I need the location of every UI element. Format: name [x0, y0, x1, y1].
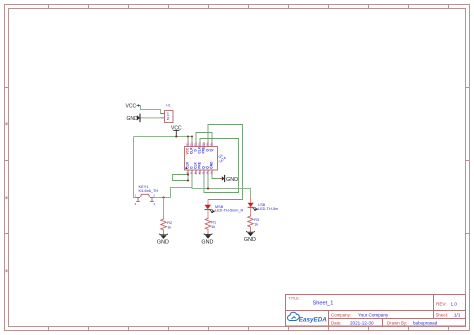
svg-text:1.0: 1.0 [451, 302, 458, 307]
svg-text:Sheet:: Sheet: [436, 313, 449, 318]
ground symbol below R2 [159, 233, 168, 236]
svg-text:Drawn By:: Drawn By: [387, 321, 407, 326]
IC U1 bottom row pin names (rotated) [186, 161, 214, 169]
svg-text:2021-12-30: 2021-12-30 [350, 321, 374, 326]
net flag GND (right of IC) triangle [222, 176, 225, 181]
wire IC bottom pin 207.5 to key line [207, 175, 209, 189]
IC U1 top row pin names (rotated) [186, 146, 214, 154]
svg-text:LED-TH-5m: LED-TH-5m [258, 207, 278, 211]
svg-text:EasyEDA: EasyEDA [299, 316, 327, 323]
svg-text:GND: GND [244, 237, 256, 243]
svg-text:REV:: REV: [436, 302, 447, 307]
header H1 body [165, 111, 174, 123]
svg-text:1k: 1k [211, 225, 215, 229]
frame ruler ticks top [49, 5, 449, 9]
wire loop pin 207.5 top to MSB led via right [208, 125, 243, 200]
net flag arrow VCC [137, 105, 140, 107]
svg-text:Company:: Company: [331, 312, 351, 317]
svg-text:11: 11 [198, 143, 201, 147]
svg-text:Sheet_1: Sheet_1 [313, 300, 334, 306]
wire IC bottom pin 191.5 to key line [191, 175, 193, 188]
wire key line to LSB led [154, 188, 251, 198]
svg-text:babuprasad: babuprasad [413, 321, 438, 326]
title block border [286, 295, 466, 327]
IC U1 top pin numbers [186, 143, 213, 147]
wire VCC rail left drop to key [134, 137, 137, 198]
svg-text:Date:: Date: [331, 321, 342, 326]
wire IC bottom pin 211.5 to GND flag [212, 175, 220, 179]
wire GND to H1 pin2 [141, 117, 162, 119]
junction node pin 187.5 at 174.5 [187, 173, 189, 175]
EasyEDA logo cloud [288, 312, 300, 320]
wire key junction down to R2 [163, 198, 165, 218]
junction node on VCC rail at x=176 [175, 135, 177, 137]
svg-text:R3: R3 [254, 218, 259, 222]
svg-text:GND: GND [210, 161, 214, 169]
junction node on VCC rail at pin 187.5 [187, 135, 189, 137]
svg-text:R1: R1 [211, 221, 216, 225]
frame ruler ticks left [5, 88, 9, 273]
svg-text:K4-6x6_TH: K4-6x6_TH [139, 188, 159, 193]
ground symbol below R3 [246, 230, 255, 233]
svg-text:GND: GND [127, 116, 139, 122]
svg-text:GND: GND [201, 239, 213, 245]
wire VCC rail [134, 136, 193, 138]
svg-text:1k: 1k [167, 226, 171, 230]
svg-text:1/1: 1/1 [454, 313, 461, 318]
wire loop pin 203.5 top to bottom pin 203.5 via right [200, 139, 239, 193]
wire rail to IC top pin 13 [191, 137, 193, 143]
header H1 pin 1 [161, 113, 165, 115]
svg-text:TITLE:: TITLE: [289, 297, 300, 301]
wire IC bottom pin 187.5 jog [173, 175, 189, 181]
frame ruler ticks bottom [49, 327, 449, 331]
LED MSB symbol [205, 200, 215, 218]
wire R2 to GND [163, 232, 165, 235]
resistor R1 [205, 217, 211, 231]
wire VCC to H1 pin1 [140, 106, 164, 114]
net flag GND triangle [137, 115, 140, 120]
svg-text:VCC: VCC [126, 104, 137, 110]
resistor R3 [248, 215, 254, 229]
junction node key to R2 [162, 196, 164, 198]
wire loop top pins 195.5-211.5 [196, 133, 212, 143]
svg-text:R2: R2 [167, 221, 172, 225]
IC U1 bottom pin numbers [186, 171, 212, 175]
svg-text:14: 14 [186, 143, 190, 147]
svg-text:LED-TH-5mm_R: LED-TH-5mm_R [215, 209, 244, 213]
IC U1 bottom pin stubs [188, 170, 212, 175]
svg-text:GND: GND [226, 177, 238, 183]
wire R3 to GND [250, 229, 252, 233]
junction node pin 187.5 at 180.5 [187, 179, 189, 181]
header H1 pin 2 [161, 117, 165, 119]
wire rail to IC top pin 14 [187, 137, 189, 143]
frame ruler ticks right [466, 88, 470, 234]
wire R1 to GND [207, 231, 209, 235]
svg-text:Your Company: Your Company [358, 312, 389, 317]
IC U1 body [185, 147, 218, 171]
key KEY1 symbol [136, 194, 154, 201]
resistor R2 [161, 218, 167, 232]
svg-text:H1: H1 [166, 104, 171, 108]
svg-text:GND: GND [157, 240, 169, 246]
key KEY1 pin numbers [135, 194, 156, 206]
junction node on VCC rail at pin 191.5 [191, 135, 193, 137]
svg-text:10: 10 [202, 143, 206, 147]
IC U1 top pin stubs [188, 142, 212, 147]
ground symbol below R1 [204, 233, 213, 236]
LED LSB symbol [248, 203, 258, 215]
svg-text:1k: 1k [254, 223, 258, 227]
junction node at pin 207.5 / key line [207, 187, 209, 189]
IC U1 pin1 marker [185, 167, 187, 169]
